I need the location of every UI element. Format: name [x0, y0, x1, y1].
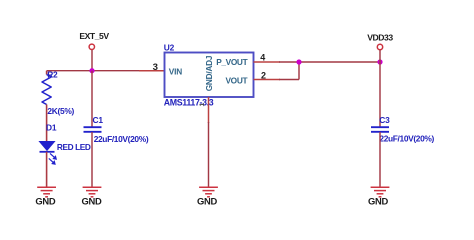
wire C3 to ground [379, 132, 381, 187]
wire junction to C3 [379, 62, 381, 127]
pin 2 stub [254, 79, 281, 81]
wire junction to C1 [91, 71, 93, 127]
svg-text:P_VOUT: P_VOUT [216, 57, 247, 67]
svg-text:RED LED: RED LED [57, 142, 91, 152]
wire VOUT riser [298, 62, 300, 80]
resistor R2 [42, 71, 51, 142]
svg-text:22uF/10V(20%): 22uF/10V(20%) [379, 134, 434, 144]
svg-text:1: 1 [199, 103, 206, 107]
terminal EXT_5V [89, 44, 94, 49]
wire C1 to ground [91, 132, 93, 187]
svg-text:D1: D1 [46, 123, 57, 133]
svg-text:AMS1117-3.3: AMS1117-3.3 [164, 97, 214, 107]
svg-text:GND: GND [82, 196, 102, 207]
wire VDD33 to junction [379, 50, 381, 62]
wire pin 2 VOUT to riser [279, 79, 299, 81]
op-amp regulator U2 box [165, 53, 254, 98]
pin 1 GND wire to ground [208, 122, 210, 187]
ground at U2 [199, 187, 218, 197]
terminal VDD33 [377, 44, 382, 49]
svg-text:GND/ADJ: GND/ADJ [204, 55, 214, 91]
svg-text:C1: C1 [93, 115, 104, 125]
svg-text:GND: GND [197, 196, 217, 207]
wire D1 to ground [46, 152, 48, 187]
svg-text:22uF/10V(20%): 22uF/10V(20%) [94, 134, 149, 144]
svg-text:4: 4 [260, 53, 265, 63]
capacitor C1 [84, 127, 102, 132]
junction VOUT join [296, 59, 301, 64]
wire main horizontal to VIN [47, 70, 140, 72]
svg-text:R2: R2 [47, 69, 58, 79]
svg-text:VIN: VIN [169, 67, 182, 77]
svg-text:U2: U2 [164, 42, 175, 52]
pin 1 GND stub [208, 97, 210, 123]
ground at C1 [83, 187, 102, 197]
svg-text:GND: GND [35, 196, 55, 207]
svg-text:EXT_5V: EXT_5V [79, 31, 109, 41]
svg-text:VOUT: VOUT [225, 75, 247, 85]
svg-text:GND: GND [368, 196, 388, 207]
svg-text:3: 3 [153, 62, 158, 73]
svg-text:C3: C3 [379, 115, 390, 125]
junction node at EXT_5V column [89, 68, 94, 73]
svg-text:2K(5%): 2K(5%) [47, 106, 74, 116]
ground at D1 [37, 187, 56, 197]
junction VDD33 column [377, 59, 382, 64]
pin 4 stub [254, 61, 281, 63]
capacitor C3 [371, 127, 389, 132]
pin 3 stub [139, 70, 165, 72]
wire EXT_5V to main net [91, 50, 93, 71]
svg-text:VDD33: VDD33 [367, 33, 393, 43]
ground at C3 [371, 187, 390, 197]
wire pin 4 P_VOUT net [279, 61, 380, 63]
LED D1 [40, 142, 57, 165]
